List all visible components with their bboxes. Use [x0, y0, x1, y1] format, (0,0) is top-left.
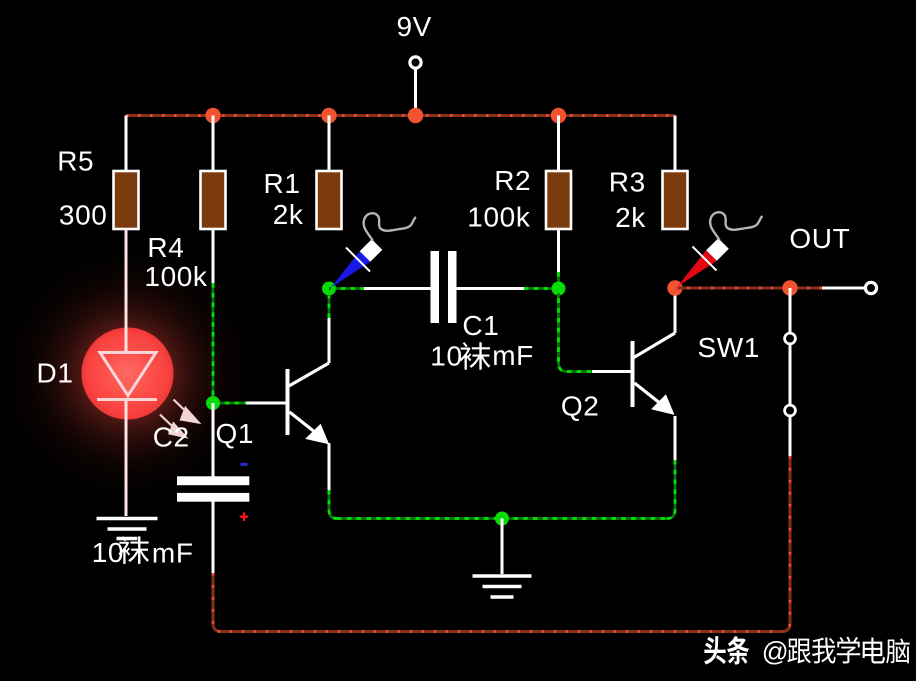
- junction dot rail-R4: [205, 108, 220, 123]
- svg-text:R3: R3: [609, 167, 646, 198]
- node: R2 bottom green dot: [552, 282, 566, 296]
- svg-text:mF: mF: [492, 340, 534, 371]
- wire C1 right to R2 node: [457, 287, 525, 290]
- svg-text:2k: 2k: [615, 202, 646, 233]
- Q2 collector diagonal: [633, 333, 675, 358]
- wire rail to R4: [212, 116, 215, 172]
- Q1 emitter to green bus: [329, 490, 337, 519]
- OUT terminal: [865, 282, 876, 293]
- ground symbol center: [501, 519, 504, 575]
- watermark toutiao: [704, 636, 909, 666]
- wire R2 node to Q2 base (green then white): [559, 289, 593, 372]
- resistor R2: [546, 171, 571, 229]
- resistor R1: [317, 171, 342, 229]
- wire SW1 bottom to bus (dark red): [782, 456, 790, 632]
- svg-text:R5: R5: [57, 145, 94, 176]
- red probe at output node: [678, 212, 763, 286]
- resistor R3: [663, 171, 688, 229]
- svg-text:Q1: Q1: [216, 418, 255, 449]
- wire rail to R3: [674, 116, 677, 172]
- svg-text:C2: C2: [153, 421, 190, 452]
- svg-text:D1: D1: [37, 358, 74, 389]
- wire rail to R5: [125, 116, 128, 172]
- capacitor C1: [431, 251, 440, 323]
- Q1 collector wire up to node: [328, 318, 331, 363]
- Q2 emitter wire down: [674, 416, 677, 460]
- svg-text:100k: 100k: [467, 202, 531, 233]
- svg-text:SW1: SW1: [698, 332, 760, 363]
- wire R5 bottom through LED to ground: [125, 229, 128, 352]
- Q2 collector wire up to node: [674, 288, 677, 333]
- svg-text:9V: 9V: [397, 11, 432, 42]
- wire R2 bottom white part: [557, 229, 560, 272]
- svg-text:mF: mF: [152, 537, 194, 568]
- Q2 emitter to green bus: [667, 460, 675, 519]
- transistor Q1 base bar: [286, 369, 290, 435]
- wire out node to SW1 node (dark red): [675, 287, 822, 290]
- blue probe at Q1 collector node: [331, 213, 416, 287]
- wire R4 bottom white part: [212, 229, 215, 283]
- wire R4 to base node (green net): [212, 283, 215, 403]
- Q2 emitter diagonal with arrow: [635, 383, 662, 404]
- junction dot rail-R1: [321, 108, 336, 123]
- node: Q1 collector green dot: [322, 282, 336, 296]
- junction dot green bus: [495, 512, 509, 526]
- C2 minus sign: [241, 463, 248, 466]
- ground under D1: [97, 519, 158, 539]
- capacitor C2 (polarized): [177, 476, 249, 485]
- svg-text:100k: 100k: [144, 261, 208, 292]
- junction dot SW1 top: [782, 280, 797, 295]
- green bus emitters to ground: [337, 517, 667, 520]
- wire: 9V drop to rail: [414, 68, 417, 116]
- LED D1 symbol triangle: [97, 353, 157, 400]
- switch SW1: [789, 288, 792, 333]
- wire rail to R1: [328, 116, 331, 172]
- wire: +9V rail (dark red dashed): [126, 114, 675, 117]
- LED D1 glow halo: [0, 244, 258, 504]
- Q1 collector diagonal: [288, 363, 329, 387]
- svg-text:Q2: Q2: [561, 391, 600, 422]
- svg-text:@: @: [762, 636, 789, 666]
- svg-text:R1: R1: [264, 168, 301, 199]
- wire rail to R2: [557, 116, 560, 172]
- svg-text:R2: R2: [494, 165, 531, 196]
- svg-text:OUT: OUT: [789, 223, 850, 254]
- svg-text:10: 10: [430, 341, 462, 372]
- junction dot base node (green): [206, 396, 220, 410]
- Q1 emitter wire down: [328, 443, 331, 490]
- wire base node to C2 top: [212, 403, 215, 477]
- wire to OUT terminal white: [822, 287, 865, 290]
- junction dot rail-9V: [408, 108, 423, 123]
- junction dot rail-R2: [551, 108, 566, 123]
- wire node to C1 left: [364, 287, 431, 290]
- node: output red dot: [667, 280, 682, 295]
- svg-text:R4: R4: [147, 232, 184, 263]
- svg-text:2k: 2k: [273, 199, 304, 230]
- resistor R4: [201, 171, 226, 229]
- 9V terminal: [410, 57, 421, 68]
- svg-text:C1: C1: [462, 310, 499, 341]
- svg-text:300: 300: [59, 199, 108, 230]
- transistor Q2 base bar: [631, 341, 635, 407]
- wire C2 bottom to bottom bus (dark red): [213, 573, 782, 632]
- wire C2 bottom white: [212, 502, 215, 574]
- Q1 emitter diagonal with arrow: [290, 412, 317, 433]
- resistor R5: [114, 171, 139, 229]
- C2 plus sign: [240, 512, 249, 521]
- wire base node to Q1 base: [246, 402, 287, 405]
- svg-text:10: 10: [92, 537, 124, 568]
- LED light arrows: [160, 400, 199, 438]
